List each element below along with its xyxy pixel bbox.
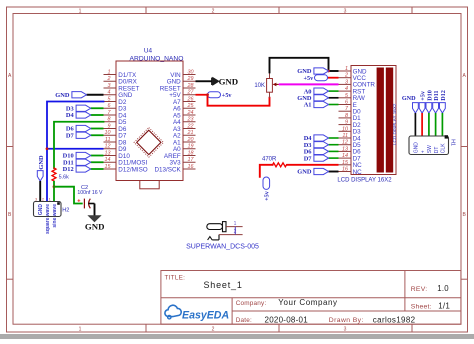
svg-text:3: 3 — [344, 327, 347, 333]
svg-text:Company:: Company: — [236, 300, 267, 307]
svg-text:12: 12 — [342, 140, 348, 146]
svg-text:Sheet:: Sheet: — [411, 304, 432, 311]
wire resistor to H2 — [53, 181, 55, 202]
wire lcd D3 — [329, 144, 339, 146]
svg-text:15: 15 — [342, 160, 349, 166]
U4 left pins — [104, 69, 148, 173]
LCD pins — [339, 66, 376, 176]
svg-text:30: 30 — [188, 69, 194, 75]
svg-text:22: 22 — [187, 123, 194, 129]
net flag D7 lcd — [304, 155, 329, 162]
svg-text:10: 10 — [105, 130, 111, 136]
svg-text:2: 2 — [212, 8, 215, 14]
LCD display module body — [337, 66, 396, 184]
svg-text:14: 14 — [105, 157, 111, 163]
wire lcd A0 — [329, 90, 339, 92]
wire h1 pin5 — [441, 113, 443, 136]
wire D12 — [91, 168, 104, 170]
svg-text:3: 3 — [345, 79, 348, 85]
title block — [161, 271, 461, 325]
svg-text:ARDUINO_NANO: ARDUINO_NANO — [130, 55, 184, 62]
svg-text:24: 24 — [187, 110, 194, 116]
wire h1 pin1 — [414, 113, 416, 136]
wire pin27 +5v — [196, 94, 208, 96]
power flag +5v pin27 — [208, 92, 233, 99]
wire D7 — [91, 134, 104, 136]
IC U4 ARDUINO_NANO body — [116, 48, 183, 189]
svg-text:2: 2 — [42, 197, 44, 202]
wire D2 net blue — [47, 102, 104, 202]
wire lcd pin1 gnd — [327, 70, 338, 73]
svg-text:carlos1982: carlos1982 — [373, 315, 416, 324]
svg-text:Date:: Date: — [236, 317, 252, 324]
power flag +5v vertical — [263, 177, 271, 201]
svg-text:5.6k: 5.6k — [59, 175, 69, 181]
svg-text:GND: GND — [297, 169, 312, 176]
wire h1 pin2 — [421, 113, 423, 136]
svg-text:9: 9 — [345, 120, 348, 126]
svg-text:REV:: REV: — [411, 286, 428, 293]
svg-text:NC: NC — [353, 169, 363, 176]
net flag D11 — [63, 159, 91, 166]
wire lcd pin16 gnd — [329, 171, 339, 173]
net flag GND lcd pin1 — [297, 68, 328, 75]
svg-text:27: 27 — [187, 90, 195, 96]
svg-text:square wave: square wave — [45, 204, 51, 234]
wire lcd GND — [329, 97, 339, 99]
svg-text:GND: GND — [402, 95, 416, 102]
net flag D3 lcd — [304, 142, 329, 149]
svg-text:6: 6 — [108, 103, 111, 109]
wire D3 — [91, 107, 104, 109]
connector H2 — [34, 197, 70, 234]
svg-text:9: 9 — [108, 123, 111, 129]
svg-text:14: 14 — [342, 153, 348, 159]
svg-text:17: 17 — [188, 157, 195, 163]
svg-text:1: 1 — [49, 197, 51, 202]
svg-text:3: 3 — [35, 197, 37, 202]
net flag GND lcd — [297, 95, 328, 102]
wire D6 — [91, 128, 104, 130]
svg-text:2: 2 — [344, 73, 348, 79]
net flag +5v h1 — [419, 90, 426, 113]
net flag D7 — [66, 132, 91, 139]
wire D9 net blue — [47, 148, 104, 150]
svg-text:26: 26 — [187, 96, 194, 102]
svg-text:sine wave: sine wave — [52, 204, 58, 228]
svg-text:H1: H1 — [450, 139, 456, 146]
net flag D6 lcd — [304, 148, 329, 155]
svg-text:GND: GND — [219, 77, 239, 87]
wire C2 to gnd — [88, 203, 94, 205]
svg-text:1: 1 — [345, 66, 348, 72]
svg-text:4: 4 — [345, 86, 348, 92]
svg-text:8: 8 — [108, 117, 111, 123]
wire to C2 — [54, 187, 82, 204]
junction sine node — [53, 185, 56, 188]
wire pot top black — [270, 58, 329, 73]
wire lcd D6 — [329, 150, 339, 152]
net flag GND h1 — [402, 95, 418, 113]
svg-text:10K: 10K — [254, 83, 265, 89]
svg-text:U4: U4 — [144, 48, 153, 55]
net flag D10 — [63, 152, 91, 159]
svg-text:A1: A1 — [304, 102, 312, 109]
svg-text:D7: D7 — [66, 132, 75, 139]
svg-text:Your Company: Your Company — [278, 298, 337, 307]
svg-text:LCD DISPLAY 16X2: LCD DISPLAY 16X2 — [337, 177, 392, 183]
svg-text:+: + — [420, 150, 426, 153]
ground symbol bottom-left — [85, 204, 105, 232]
wire h1 pin4 — [435, 113, 437, 136]
net flag D10 h1 — [426, 90, 433, 113]
wire +5v to potentiometer — [206, 93, 269, 105]
svg-text:DT: DT — [434, 147, 440, 154]
wire D4 — [91, 114, 104, 116]
svg-text:D12: D12 — [63, 166, 74, 173]
svg-text:GND: GND — [414, 142, 420, 154]
svg-text:12: 12 — [105, 144, 111, 150]
svg-text:1/1: 1/1 — [438, 302, 450, 311]
svg-text:Drawn By:: Drawn By: — [329, 317, 364, 324]
svg-text:1: 1 — [79, 327, 82, 333]
svg-text:13: 13 — [105, 150, 111, 156]
svg-text:TITLE:: TITLE: — [165, 275, 186, 282]
svg-text:2: 2 — [107, 76, 111, 82]
svg-text:3: 3 — [108, 83, 111, 89]
svg-text:GND: GND — [38, 204, 44, 216]
svg-text:CLK: CLK — [441, 143, 447, 153]
wire D10 — [91, 155, 104, 157]
net flag D3 — [66, 105, 91, 112]
svg-text:13: 13 — [342, 146, 348, 152]
connector H1 — [409, 135, 456, 154]
connector SUPERWAN_DCS-005 — [186, 221, 259, 251]
wire +5v to 470R — [260, 165, 273, 177]
net flag D4 — [66, 112, 91, 119]
net flag D11 h1 — [433, 90, 440, 113]
svg-text:11: 11 — [342, 133, 348, 139]
easyeda logo — [165, 305, 229, 321]
svg-text:470R: 470R — [262, 157, 277, 163]
ground symbol pin29 — [212, 77, 238, 87]
net flag A0 lcd — [304, 88, 329, 95]
svg-text:SUPERWAN_DCS-005: SUPERWAN_DCS-005 — [186, 244, 259, 251]
svg-text:D12/MISO: D12/MISO — [118, 166, 147, 173]
resistor 470R — [262, 157, 287, 167]
resistor R 5.6k — [52, 168, 69, 181]
wire D5 net green — [54, 122, 104, 168]
wire pin29 gnd — [196, 80, 212, 82]
svg-text:8: 8 — [345, 113, 348, 119]
net flag D6 — [66, 125, 91, 132]
wire lcd D4 — [329, 137, 339, 139]
svg-text:EasyEDA: EasyEDA — [182, 310, 229, 322]
svg-text:16: 16 — [188, 164, 194, 170]
svg-text:6: 6 — [345, 100, 348, 106]
svg-text:15: 15 — [105, 164, 112, 170]
svg-text:+5v: +5v — [303, 75, 314, 82]
svg-text:D7: D7 — [304, 155, 313, 162]
svg-text:16: 16 — [342, 167, 348, 173]
wire wiper magenta — [279, 83, 339, 85]
svg-text:SW: SW — [427, 145, 433, 153]
capacitor C2 — [77, 185, 103, 209]
net flag D12 — [63, 166, 91, 173]
svg-text:2020-08-01: 2020-08-01 — [265, 315, 309, 324]
wire D11 — [91, 161, 104, 163]
svg-text:23: 23 — [187, 117, 194, 123]
wire 470R to lcd pin15 — [287, 164, 339, 166]
svg-text:D12: D12 — [440, 90, 447, 101]
net flag GND pin4 — [55, 92, 86, 99]
svg-text:28: 28 — [187, 83, 194, 89]
U4 right pins — [154, 69, 195, 173]
svg-text:25: 25 — [187, 103, 195, 109]
svg-text:D4: D4 — [66, 112, 75, 119]
svg-text:GND: GND — [55, 92, 70, 99]
net flag A1 lcd — [304, 101, 329, 108]
junction D2/D9 — [46, 147, 49, 150]
svg-text:4: 4 — [108, 90, 111, 96]
svg-text:11: 11 — [105, 137, 111, 143]
svg-text:2: 2 — [212, 327, 215, 333]
svg-text:1.0: 1.0 — [437, 284, 449, 293]
svg-text:+5v: +5v — [222, 92, 233, 99]
svg-text:10: 10 — [342, 126, 348, 132]
svg-text:H2: H2 — [62, 207, 69, 213]
svg-text:D13/SCK: D13/SCK — [154, 166, 181, 173]
svg-text:GND: GND — [85, 222, 105, 232]
svg-text:GND: GND — [38, 155, 45, 170]
net flag D12 h1 — [440, 90, 447, 113]
svg-text:100nf 16 V: 100nf 16 V — [77, 190, 103, 196]
svg-text:Sheet_1: Sheet_1 — [204, 280, 243, 290]
svg-text:19: 19 — [188, 144, 194, 150]
svg-text:1: 1 — [79, 8, 82, 14]
svg-text:1: 1 — [234, 221, 237, 227]
wire h1 pin3 — [428, 113, 430, 136]
svg-text:LCD DISPLAY 16X2: LCD DISPLAY 16X2 — [392, 103, 397, 145]
svg-text:21: 21 — [187, 130, 194, 136]
net flag GND lcd pin16 — [297, 168, 328, 175]
svg-text:29: 29 — [187, 76, 194, 82]
svg-text:1: 1 — [108, 69, 111, 75]
wire lcd pin2 +5v — [328, 77, 339, 79]
wire pin4 gnd — [87, 94, 104, 96]
svg-text:18: 18 — [188, 150, 194, 156]
net flag D4 lcd — [304, 135, 329, 142]
wire gnd flag to H2 — [39, 181, 41, 202]
wire lcd A1 — [329, 104, 339, 106]
net flag GND vertical — [37, 155, 45, 181]
power flag +5v lcd pin2 — [303, 75, 327, 82]
svg-text:20: 20 — [187, 137, 194, 143]
wire lcd D7 — [329, 157, 339, 159]
svg-text:3: 3 — [344, 8, 347, 14]
svg-text:+5v: +5v — [264, 190, 271, 201]
potentiometer RV 10K — [254, 72, 278, 97]
